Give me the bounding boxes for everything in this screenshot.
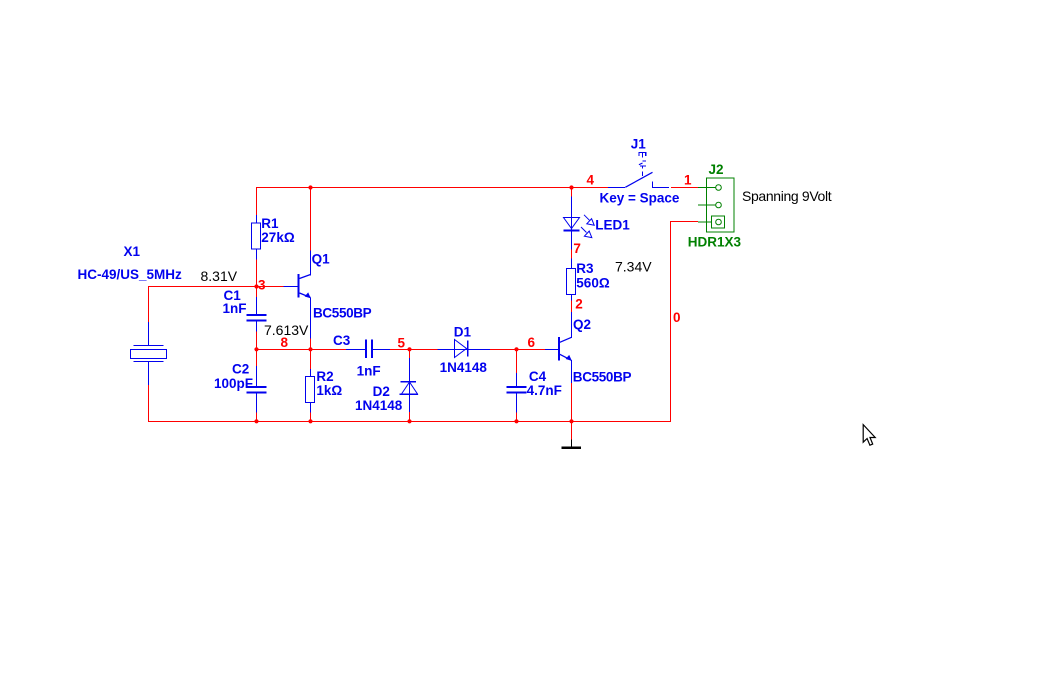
svg-text:1N4148: 1N4148	[440, 360, 488, 375]
wire net2 R3 to Q2 collector	[571, 300, 572, 312]
svg-text:X1: X1	[124, 244, 141, 259]
svg-text:1nF: 1nF	[223, 301, 247, 316]
svg-text:100pF: 100pF	[214, 376, 253, 391]
svg-text:1N4148: 1N4148	[355, 398, 403, 413]
svg-text:J1: J1	[631, 136, 647, 151]
junction net0 D2	[407, 419, 411, 423]
junction net0 ground	[569, 419, 573, 423]
svg-text:C2: C2	[232, 362, 249, 377]
wire net6 to C4	[516, 349, 517, 374]
mouse cursor	[863, 425, 875, 446]
wire C4 to net0	[516, 412, 517, 422]
wire D2 to net0	[409, 412, 410, 422]
wire net8 to C2	[256, 349, 257, 367]
svg-text:7.34V: 7.34V	[615, 259, 652, 275]
junction net3	[254, 284, 258, 288]
svg-text:7.613V: 7.613V	[264, 322, 309, 338]
svg-text:0: 0	[673, 310, 681, 325]
junction net8 R2	[308, 347, 312, 351]
junction net0 C2	[254, 419, 258, 423]
svg-text:4: 4	[587, 173, 595, 188]
svg-text:2: 2	[575, 297, 583, 312]
wire net8 to R2	[310, 349, 311, 369]
resistor R2	[306, 369, 315, 413]
junction net6 C4	[514, 347, 518, 351]
svg-text:5: 5	[398, 335, 406, 350]
svg-text:C4: C4	[529, 369, 547, 384]
wire net3 base horizontal	[148, 286, 284, 287]
wire R1 top (net4 drop)	[256, 187, 257, 215]
junction net0 R2	[308, 419, 312, 423]
svg-text:Spanning 9Volt: Spanning 9Volt	[742, 188, 832, 204]
wire R1 bottom to net3	[256, 259, 257, 287]
junction net5 D2	[407, 347, 411, 351]
wire C2 to net0	[256, 412, 257, 422]
wire Q1 emitter to net8	[310, 338, 311, 350]
resistor R1	[252, 215, 261, 260]
svg-text:8.31V: 8.31V	[201, 268, 238, 284]
svg-text:3: 3	[258, 278, 266, 293]
svg-text:27kΩ: 27kΩ	[261, 230, 295, 245]
capacitor C2	[247, 366, 267, 413]
LED LED1	[564, 197, 595, 250]
wire C1 to net8	[256, 331, 257, 350]
wire Q2 emitter to net0	[571, 383, 572, 422]
svg-text:1kΩ: 1kΩ	[316, 383, 342, 398]
ground	[562, 440, 582, 450]
svg-text:Q1: Q1	[312, 252, 331, 267]
svg-text:R2: R2	[316, 369, 333, 384]
svg-text:LED1: LED1	[595, 218, 630, 233]
svg-text:1nF: 1nF	[357, 364, 381, 379]
resistor R3	[567, 259, 576, 301]
wire net0 right vertical	[670, 221, 671, 422]
svg-text:4.7nF: 4.7nF	[527, 383, 562, 398]
wire net0 to ground	[571, 421, 572, 440]
transistor Q1	[284, 251, 312, 339]
svg-text:BC550BP: BC550BP	[313, 306, 372, 321]
svg-text:Key = Space: Key = Space	[600, 191, 680, 206]
wire R2 to net0	[310, 412, 311, 422]
svg-text:HC-49/US_5MHz: HC-49/US_5MHz	[78, 267, 183, 282]
svg-text:HDR1X3: HDR1X3	[688, 235, 742, 250]
wire net4 top horizontal	[256, 187, 608, 188]
wire net5 to D2	[409, 349, 410, 359]
svg-text:6: 6	[528, 335, 536, 350]
svg-text:Q2: Q2	[573, 317, 591, 332]
svg-text:J2: J2	[709, 162, 724, 177]
crystal X1	[131, 322, 167, 385]
wire left vertical upper (net3 to crystal)	[148, 286, 149, 322]
svg-text:D2: D2	[373, 384, 390, 399]
wire net0 to J2 pin3	[670, 221, 698, 222]
wire net8 mid horizontal	[256, 349, 346, 350]
transistor Q2	[545, 312, 572, 383]
wire net4 after switch to J2 pin1	[671, 187, 698, 188]
wire net6 segment	[490, 349, 545, 350]
wire net5 segment	[390, 349, 438, 350]
svg-text:C3: C3	[333, 333, 351, 348]
junction net0 C4	[514, 419, 518, 423]
wire net3 to C1	[256, 286, 257, 297]
svg-text:R3: R3	[576, 261, 594, 276]
junction net4 LED branch	[569, 185, 573, 189]
switch J1	[608, 152, 669, 188]
svg-text:1: 1	[684, 173, 692, 188]
connector J2	[698, 178, 734, 232]
svg-text:D1: D1	[454, 324, 472, 339]
capacitor C3	[346, 340, 390, 359]
svg-text:7: 7	[573, 241, 581, 256]
svg-text:R1: R1	[261, 216, 279, 231]
diode D1	[438, 340, 491, 358]
diode D2	[400, 358, 419, 412]
svg-text:BC550BP: BC550BP	[573, 370, 632, 385]
capacitor C1	[247, 297, 267, 332]
capacitor C4	[507, 373, 527, 413]
junction net4 Q1 collector	[308, 185, 312, 189]
wire Q1 collector drop from net4	[310, 187, 311, 251]
junction net8 C1	[254, 347, 258, 351]
wire net4 to LED1	[571, 187, 572, 197]
wire left vertical lower (crystal to net0)	[148, 385, 149, 422]
svg-text:560Ω: 560Ω	[576, 276, 610, 291]
wire net7 LED1 to R3	[571, 249, 572, 259]
wire net0 bottom horizontal	[148, 421, 671, 422]
